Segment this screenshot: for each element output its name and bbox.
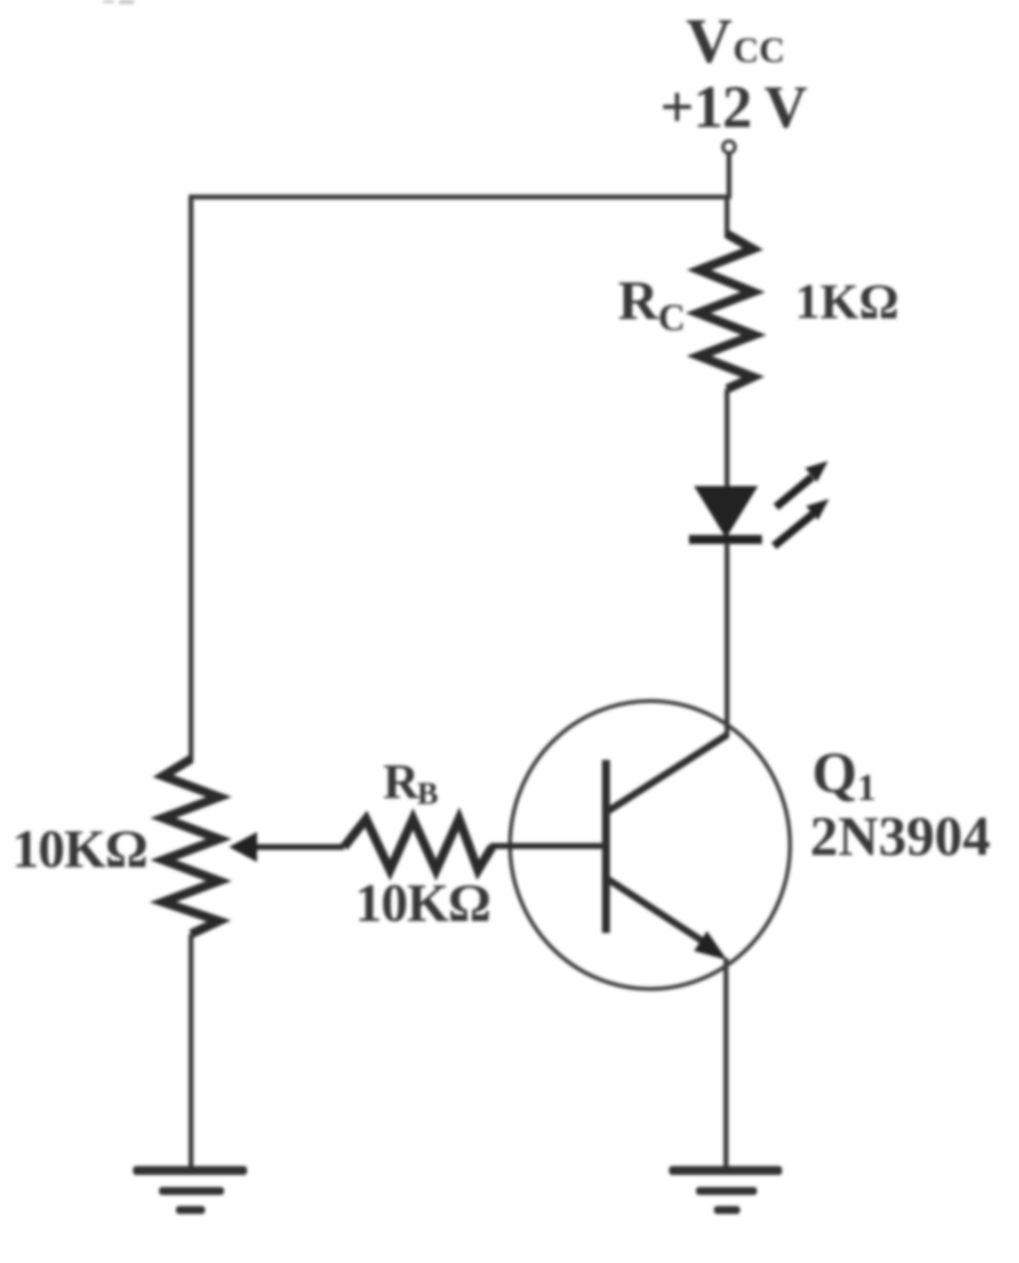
Q1 label <box>812 740 876 809</box>
svg-text:R: R <box>618 270 659 332</box>
Vcc terminal <box>723 141 735 153</box>
svg-text:2N3904: 2N3904 <box>810 806 990 868</box>
wire RC to LED <box>725 389 730 490</box>
svg-text:Q: Q <box>812 740 857 805</box>
Q1 emitter arrowhead <box>694 931 727 960</box>
resistor RC <box>698 234 754 389</box>
svg-text:1: 1 <box>857 767 876 809</box>
LED D1 <box>689 486 762 544</box>
wire terminal to junction <box>727 153 732 199</box>
svg-text:+12 V: +12 V <box>660 74 807 140</box>
resistor RB <box>344 819 492 870</box>
ground right <box>669 1166 782 1214</box>
Q1 base bar <box>602 760 610 933</box>
svg-text:R: R <box>383 753 420 809</box>
svg-text:CC: CC <box>733 30 785 70</box>
svg-text:10KΩ: 10KΩ <box>355 873 490 933</box>
wire LED to collector <box>725 543 730 737</box>
Vcc label <box>686 5 785 76</box>
LED light arrow 2 <box>774 499 829 546</box>
potentiometer R1 <box>163 759 219 934</box>
wire left vertical top <box>189 195 194 762</box>
svg-text:10KΩ: 10KΩ <box>12 819 147 879</box>
ground left <box>133 1166 247 1214</box>
wire junction to RC <box>725 197 730 238</box>
svg-text:V: V <box>686 5 732 76</box>
wire emitter to ground <box>724 958 729 1171</box>
wire base to bar <box>490 843 606 849</box>
Q1 collector line <box>605 735 727 813</box>
edge artifact marks <box>103 0 134 4</box>
wire top horizontal <box>189 195 729 200</box>
svg-text:C: C <box>658 297 685 339</box>
wiper arrowhead <box>229 832 257 862</box>
svg-text:B: B <box>417 775 438 811</box>
wire RB to wiper <box>250 844 344 850</box>
LED light arrow 1 <box>776 461 828 507</box>
transistor Q1 body <box>510 701 790 989</box>
wire pot to ground <box>189 934 194 1171</box>
RC label <box>618 270 685 339</box>
svg-text:1KΩ: 1KΩ <box>795 273 899 329</box>
RB label <box>383 753 438 811</box>
Q1 emitter line <box>606 878 707 944</box>
